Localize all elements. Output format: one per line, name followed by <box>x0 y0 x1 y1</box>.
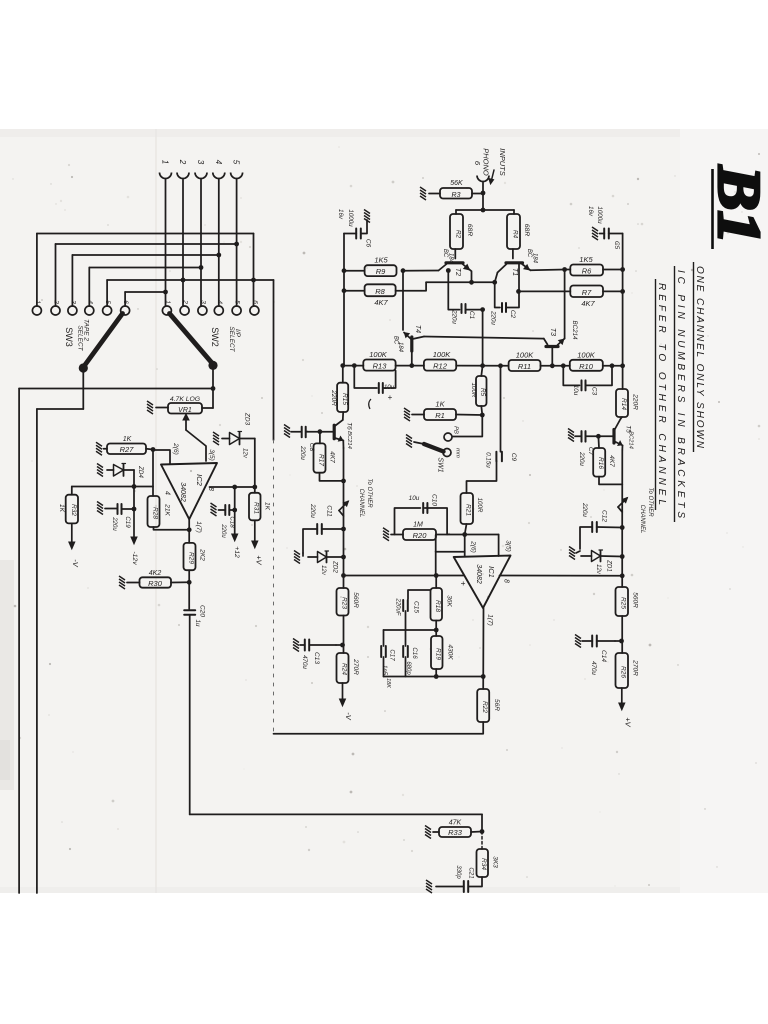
svg-text:10u: 10u <box>409 495 420 502</box>
svg-text:R34: R34 <box>480 858 487 870</box>
svg-text:IC1: IC1 <box>487 566 496 578</box>
wire T2 emitter to R9 <box>401 268 451 273</box>
svg-text:1(7): 1(7) <box>195 521 202 533</box>
svg-text:C12: C12 <box>601 510 608 522</box>
TAPE 2 SELECT label <box>77 319 90 352</box>
resistor R4 68R <box>507 214 530 249</box>
capacitor C2 220u <box>490 282 517 325</box>
minus V arrow IC2 <box>69 523 80 567</box>
svg-text:T2: T2 <box>454 268 461 276</box>
svg-text:R21: R21 <box>465 504 472 516</box>
svg-text:C14: C14 <box>600 650 607 662</box>
wire feedback top <box>434 573 439 588</box>
wire rail R11-R10 <box>541 363 570 368</box>
svg-text:R16: R16 <box>597 457 604 469</box>
wire SW3 contact 4 stub <box>88 268 90 307</box>
C11 ground <box>294 551 303 564</box>
svg-text:R33: R33 <box>448 828 463 837</box>
svg-text:1: 1 <box>164 300 171 304</box>
svg-text:R26: R26 <box>620 666 627 678</box>
pot VR1 4.7K LOG <box>168 396 202 414</box>
svg-text:VR1: VR1 <box>178 407 192 414</box>
svg-text:184: 184 <box>397 342 403 353</box>
switch SW2 wiper <box>170 314 218 371</box>
svg-text:SELECT: SELECT <box>228 326 235 352</box>
svg-text:PB: PB <box>453 426 459 434</box>
svg-text:1K: 1K <box>264 502 271 511</box>
svg-text:3(5): 3(5) <box>505 540 512 552</box>
SW2 contact 3 <box>198 300 207 315</box>
scanned paper area <box>0 129 768 893</box>
svg-text:C19: C19 <box>124 516 131 528</box>
wire R15 top <box>342 366 344 383</box>
capacitor C21 330p <box>436 865 482 892</box>
wire C1 right <box>466 307 486 365</box>
svg-text:IC2: IC2 <box>195 474 204 487</box>
svg-text:R4: R4 <box>512 230 519 239</box>
wire R3 to node <box>472 193 483 195</box>
svg-text:4K2: 4K2 <box>149 570 162 577</box>
svg-text:R28: R28 <box>152 507 159 519</box>
wire R5 bottom <box>480 406 485 417</box>
minus V arrow left <box>340 683 354 721</box>
SW2 contact 4 <box>214 300 223 315</box>
wire IC2 minus rail <box>72 486 153 488</box>
input socket 1 <box>160 160 172 179</box>
op-amp IC1 34082 <box>454 540 512 626</box>
SW2 label <box>210 327 220 347</box>
svg-text:1K: 1K <box>123 436 132 443</box>
wire ZD3 to R31 <box>252 439 257 490</box>
wire rail R12-R11 <box>456 363 508 368</box>
svg-text:12v: 12v <box>320 565 326 576</box>
wire R27 to node <box>146 448 153 451</box>
svg-text:C2: C2 <box>509 310 516 319</box>
svg-text:ZD4: ZD4 <box>137 465 144 478</box>
svg-text:SW3: SW3 <box>64 327 74 347</box>
svg-text:16v: 16v <box>587 206 594 217</box>
wire R23-R24 junction <box>336 616 345 654</box>
C5 ground <box>592 227 604 240</box>
svg-text:1K5: 1K5 <box>374 256 388 265</box>
svg-text:100K: 100K <box>577 350 596 359</box>
resistor R22 56R <box>477 689 500 722</box>
INPUTS label <box>489 148 507 184</box>
capacitor C19 220u <box>111 487 136 532</box>
svg-text:R2: R2 <box>455 230 462 239</box>
wire IC2 pin8 <box>210 486 255 488</box>
wire input 3 to SW2 contact 3 <box>199 180 204 307</box>
resistor R27 1K <box>107 436 146 454</box>
svg-text:100K: 100K <box>516 351 535 360</box>
wire T3 base riser <box>564 270 566 339</box>
wire input 5 to SW2 contact 5 <box>234 180 239 307</box>
svg-text:4: 4 <box>214 160 223 165</box>
capacitor C20 1u <box>184 582 205 627</box>
svg-text:220u: 220u <box>309 503 316 518</box>
svg-text:220u: 220u <box>490 310 497 325</box>
resistor R10 100K <box>570 350 603 371</box>
wire left rail mid <box>343 448 345 529</box>
svg-text:R19: R19 <box>435 648 442 660</box>
capacitor C10 10u <box>409 494 438 513</box>
zener ZD4 12v <box>107 464 144 479</box>
svg-text:R18: R18 <box>434 600 441 612</box>
svg-text:100R: 100R <box>476 498 483 513</box>
svg-text:C15: C15 <box>413 601 420 613</box>
transistor T2 BC184 <box>439 249 472 282</box>
resistor R23 560R <box>337 576 360 616</box>
note ONE CHANNEL ONLY SHOWN <box>694 262 706 452</box>
wire left rail to junction <box>341 529 346 578</box>
svg-text:220u: 220u <box>111 516 117 531</box>
wire SW2 wiper down <box>211 365 216 408</box>
resistor R19 430K <box>431 636 454 669</box>
wire R7 left <box>516 289 570 294</box>
C12 ZD1 ground <box>569 547 580 560</box>
capacitor C1 220u <box>448 271 475 325</box>
B1 sheet logo <box>706 165 768 249</box>
svg-text:12v: 12v <box>242 448 248 459</box>
capacitor C11 220u <box>303 503 346 553</box>
wire R21 bottom <box>462 524 467 537</box>
op-amp IC2 34082 <box>161 442 217 533</box>
SW3 contact 2 <box>51 299 60 315</box>
svg-text:1K: 1K <box>58 504 65 513</box>
wire IC2 output <box>188 519 190 543</box>
svg-text:BC: BC <box>442 249 448 258</box>
svg-text:4.7K LOG: 4.7K LOG <box>170 396 200 403</box>
wire ZD4 node <box>132 470 137 489</box>
SW3 contact 5 <box>103 300 112 315</box>
wire SW3 contact 5 stub <box>106 280 108 306</box>
zener ZD3 12v <box>222 412 255 459</box>
svg-text:REFER TO OTHER CHANNEL: REFER TO OTHER CHANNEL <box>656 283 667 505</box>
resistor R9 1K5 <box>365 256 397 277</box>
wire R33-R34 link <box>481 832 483 850</box>
svg-text:-V: -V <box>344 712 353 720</box>
svg-text:mm: mm <box>455 448 461 458</box>
plus 12 arrow <box>232 510 240 558</box>
svg-text:560R: 560R <box>352 592 359 608</box>
wire C6 to left rail <box>344 234 356 271</box>
transistor T3 BC214 <box>544 321 578 366</box>
wire T4 to T3 base <box>424 337 544 339</box>
svg-text:R30: R30 <box>148 579 163 588</box>
svg-text:SELECT: SELECT <box>77 325 84 351</box>
svg-text:C10: C10 <box>431 494 438 506</box>
SW1 ground <box>406 435 424 448</box>
resistor R20 1M <box>403 522 436 541</box>
C7 ground <box>568 429 581 442</box>
svg-text:R12: R12 <box>433 362 448 371</box>
wire R28 loop to output <box>154 527 192 532</box>
wire IC2 inverting entry <box>151 447 170 464</box>
R20 ground <box>383 528 403 541</box>
capacitor C8 220u <box>299 427 320 461</box>
svg-text:47K: 47K <box>449 820 462 827</box>
resistor R30 4K2 <box>140 570 172 588</box>
resistor R33 47K <box>439 820 471 838</box>
svg-text:4: 4 <box>164 491 171 495</box>
svg-text:4K7: 4K7 <box>329 451 336 463</box>
svg-text:3: 3 <box>196 160 205 165</box>
svg-text:C21: C21 <box>468 867 475 878</box>
resistor R32 1K <box>58 487 78 524</box>
svg-text:4: 4 <box>216 300 223 304</box>
zener ZD2 12v <box>308 551 346 576</box>
svg-text:-12v: -12v <box>131 551 138 565</box>
svg-text:4: 4 <box>86 300 93 304</box>
svg-text:R8: R8 <box>375 287 385 296</box>
plus V arrow right <box>619 688 633 728</box>
svg-text:INPUTS: INPUTS <box>498 148 507 176</box>
SW2 contact 5 <box>232 300 241 315</box>
svg-text:68R: 68R <box>466 224 473 237</box>
resistor R6 1K5 <box>570 255 603 276</box>
SW2 contact 2 <box>180 299 189 315</box>
wire R33 right <box>471 831 482 834</box>
resistor R2 68R <box>450 214 473 249</box>
svg-text:BC214: BC214 <box>346 431 352 449</box>
resistor R5 100R <box>470 366 487 406</box>
zener ZD1 12v <box>581 550 625 575</box>
transistor T1 BC184 <box>498 249 565 292</box>
svg-text:3(5): 3(5) <box>208 449 215 461</box>
I/P SELECT label <box>228 326 241 352</box>
capacitor C5 1000u 16v <box>587 206 620 250</box>
svg-text:12v: 12v <box>595 564 601 575</box>
svg-text:220R: 220R <box>632 393 639 410</box>
capacitor C6 1000u 16v <box>337 209 372 248</box>
input socket 2 <box>177 159 189 179</box>
svg-text:1K: 1K <box>435 400 445 409</box>
resistor R12 100K <box>424 350 456 371</box>
resistor R7 4K7 <box>570 286 603 309</box>
wire left rail <box>340 271 345 368</box>
svg-text:270R: 270R <box>352 658 359 675</box>
wire rail R13 left <box>343 363 364 368</box>
svg-text:5: 5 <box>232 160 241 165</box>
svg-text:+V: +V <box>624 717 633 727</box>
C14 ground <box>575 635 592 648</box>
SW2 contact 6 <box>250 300 259 315</box>
R30 ground <box>119 576 140 589</box>
svg-text:R23: R23 <box>341 597 348 609</box>
svg-text:100K: 100K <box>369 350 388 359</box>
svg-text:100R: 100R <box>470 383 477 398</box>
capacitor C9 0.15u <box>485 452 518 469</box>
plus V arrow IC2 <box>252 520 264 565</box>
C18 ground <box>211 503 226 516</box>
wire VR1 right end <box>202 407 213 409</box>
svg-text:T4: T4 <box>414 325 421 333</box>
svg-text:8: 8 <box>503 579 510 583</box>
wire R8 right <box>396 290 421 292</box>
svg-text:C13: C13 <box>313 652 320 664</box>
svg-text:ZD1: ZD1 <box>606 559 613 572</box>
svg-text:1K5: 1K5 <box>579 255 593 264</box>
resistor R3 56K <box>440 180 472 199</box>
svg-text:T3: T3 <box>549 328 556 336</box>
wire SW3 contact 6 stub <box>124 292 126 306</box>
R1 ground <box>404 408 424 421</box>
transistor T6 BC214 <box>334 412 352 449</box>
wire input 4 to SW2 contact 4 <box>216 180 221 307</box>
svg-text:3: 3 <box>69 300 76 304</box>
SW2 contact 1 <box>162 300 171 315</box>
resistor R31 1K <box>249 487 271 520</box>
wire R8 left <box>342 288 365 293</box>
svg-text:R10: R10 <box>579 362 594 371</box>
resistor R1 1K <box>424 400 456 421</box>
wire main vertical <box>620 270 625 369</box>
svg-text:100K: 100K <box>433 350 452 359</box>
transistor T5 BC214 <box>614 417 634 450</box>
wire input 1 to SW2 contact 1 <box>163 180 168 307</box>
to other channel arrow left <box>339 478 372 517</box>
svg-text:R6: R6 <box>582 266 592 275</box>
svg-text:R11: R11 <box>518 362 531 371</box>
resistor R21 100R <box>461 493 484 524</box>
svg-text:R5: R5 <box>479 388 486 397</box>
svg-text:34082: 34082 <box>179 482 186 502</box>
bus wire E (SW3-5 junction) <box>107 279 273 281</box>
wire R7 right <box>603 289 625 294</box>
svg-text:5: 5 <box>234 300 241 304</box>
svg-text:C1: C1 <box>468 311 475 320</box>
wire C5 to main vertical <box>609 234 623 270</box>
svg-text:2: 2 <box>182 299 189 304</box>
svg-text:5: 5 <box>104 300 111 304</box>
resistor R11 100K <box>509 351 541 372</box>
svg-text:R20: R20 <box>413 531 428 540</box>
wire volume node left <box>19 389 213 894</box>
wire SW3 contact 2 stub <box>55 244 57 306</box>
wire mid feedback rail <box>384 611 439 636</box>
svg-text:CHANNEL: CHANNEL <box>358 489 364 518</box>
capacitor C12 220u <box>580 502 625 549</box>
svg-text:SW2: SW2 <box>210 327 220 347</box>
svg-text:0.15u: 0.15u <box>485 452 492 468</box>
wire SW3 contact 1 stub <box>36 234 38 307</box>
SW3 contact 4 <box>85 300 94 315</box>
svg-text:4K7: 4K7 <box>374 298 388 307</box>
svg-text:T6: T6 <box>346 422 353 430</box>
svg-text:184: 184 <box>532 253 538 264</box>
svg-text:R27: R27 <box>120 445 135 454</box>
PHONO 6 label <box>473 148 491 176</box>
C8 ground <box>284 425 302 438</box>
svg-text:R17: R17 <box>318 454 325 466</box>
svg-text:R15: R15 <box>341 393 348 405</box>
svg-text:T1: T1 <box>511 268 518 276</box>
bus wire F (SW3-6 to input 1) <box>125 291 165 293</box>
transistor T4 BC184 <box>393 271 425 366</box>
svg-text:To OTHER: To OTHER <box>647 487 653 517</box>
svg-text:470u: 470u <box>301 655 308 669</box>
resistor R26 270R <box>616 653 639 688</box>
svg-text:C6: C6 <box>365 239 372 248</box>
paper speckle <box>249 246 251 248</box>
svg-text:2: 2 <box>178 159 187 165</box>
svg-text:C16: C16 <box>411 647 418 659</box>
svg-text:34082: 34082 <box>475 564 482 584</box>
input socket 3 <box>195 160 207 179</box>
svg-text:+: + <box>388 393 393 402</box>
svg-text:+: + <box>459 581 469 586</box>
svg-text:R14: R14 <box>620 398 627 410</box>
minus 12 arrow <box>131 509 138 565</box>
wire main vertical low <box>621 528 623 576</box>
svg-text:220u: 220u <box>581 502 588 517</box>
wire R17 loop <box>320 473 346 484</box>
svg-text:B1: B1 <box>706 165 768 244</box>
input socket 4 <box>213 160 225 179</box>
wire output long <box>190 615 485 834</box>
wire T5 base <box>596 434 614 439</box>
wire long return vertical <box>273 280 275 734</box>
wire R20 to IC1 node <box>436 535 499 557</box>
VR1 ground <box>147 401 168 414</box>
svg-text:C9: C9 <box>510 453 517 462</box>
svg-text:2(6): 2(6) <box>172 442 179 455</box>
note REFER TO OTHER CHANNEL <box>656 279 668 510</box>
wire R29 bottom <box>187 570 192 584</box>
switch SW3 wiper <box>79 314 123 373</box>
wire T6 base <box>318 429 335 434</box>
svg-text:1u: 1u <box>194 620 201 627</box>
R33 ground <box>425 826 439 839</box>
R27 ground <box>96 442 107 455</box>
wire main vertical to R14 <box>622 366 624 389</box>
wire R27 node down <box>152 450 154 497</box>
svg-text:4K7: 4K7 <box>581 299 595 308</box>
svg-text:16v: 16v <box>337 209 344 220</box>
svg-text:+12: +12 <box>233 546 240 558</box>
SW3 contact 6 <box>121 300 130 315</box>
resistor R15 220R <box>330 383 348 412</box>
svg-text:220u: 220u <box>451 309 458 324</box>
svg-text:C3: C3 <box>591 387 598 396</box>
capacitor C16 680p <box>403 630 418 675</box>
svg-text:-V: -V <box>71 559 80 567</box>
capacitor C7 220u <box>578 431 598 466</box>
capacitor C3 10u <box>563 366 612 396</box>
svg-text:+V: +V <box>255 555 264 565</box>
wire tape output left <box>37 409 83 893</box>
svg-text:R31: R31 <box>253 502 260 514</box>
svg-text:56R: 56R <box>493 699 500 711</box>
svg-text:R9: R9 <box>376 267 386 276</box>
svg-text:36K: 36K <box>446 595 453 607</box>
wire IC1 inv node <box>464 535 466 557</box>
wire rail R10 right <box>603 363 623 368</box>
wire C9 top <box>498 363 503 451</box>
svg-text:R1: R1 <box>435 411 445 420</box>
wire C9 to R21 <box>467 461 497 493</box>
svg-text:10u: 10u <box>572 385 579 396</box>
svg-text:470u: 470u <box>590 661 597 675</box>
bus wire B (SW3-2 to input 5) <box>56 243 237 245</box>
wire common node <box>426 273 497 285</box>
svg-text:184: 184 <box>448 253 454 264</box>
bus wire A (SW3-1 to SW2-6) <box>37 234 256 307</box>
svg-text:220u: 220u <box>578 451 585 466</box>
svg-text:1: 1 <box>161 160 170 164</box>
wire phono to rail <box>481 183 486 213</box>
svg-text:330p: 330p <box>455 865 461 879</box>
